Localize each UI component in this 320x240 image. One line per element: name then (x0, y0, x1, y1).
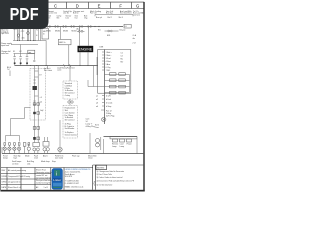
svg-text:b Fuel: b Fuel (106, 99, 112, 101)
svg-text:Plant sup: Plant sup (72, 155, 80, 158)
left rail B (37, 66, 39, 143)
svg-text:Com: Com (95, 127, 99, 129)
svg-text:AVR 2x: AVR 2x (59, 41, 65, 44)
svg-text:Power: Power (127, 144, 132, 146)
svg-text:NOTES:: NOTES: (97, 168, 105, 170)
stair wire S-a (6, 108, 31, 142)
svg-text:C: C (54, 3, 57, 8)
dashed enclosure DB1 (30, 69, 46, 121)
svg-text:MCB3: MCB3 (63, 30, 68, 32)
lamp group L3 (13, 143, 16, 154)
node labels row under strip (48, 10, 144, 17)
svg-text:b 12V: b 12V (106, 95, 111, 97)
title paragraph cell (36, 169, 52, 185)
neutral drop wires (33, 27, 35, 41)
wire collector (13, 40, 46, 42)
svg-text:1 Batt +: 1 Batt + (106, 51, 112, 54)
svg-text:Sect feed here: Sect feed here (120, 12, 132, 15)
svg-text:C2: C2 (121, 56, 123, 58)
terminal strip TS1 (18, 27, 20, 41)
svg-text:3ph 415V: 3ph 415V (1, 33, 9, 35)
lamp X0 (33, 54, 35, 63)
svg-text:Mode: Mode (25, 156, 30, 158)
svg-text:w2: w2 (40, 102, 42, 104)
svg-text:5) On Site Diameter: 5) On Site Diameter (97, 183, 113, 186)
svg-text:a2: a2 (96, 99, 98, 101)
label right of box (133, 34, 137, 45)
svg-text:Line: Line (66, 17, 69, 19)
lamp X1 (58, 120, 62, 154)
svg-text:Mode keys: Mode keys (41, 161, 50, 163)
svg-text:Print per sheet only: Print per sheet only (36, 179, 52, 182)
svg-text:4-Pin Plug: 4-Pin Plug (106, 116, 114, 118)
ladder right rail (129, 75, 131, 93)
svg-text:2) Use 2.5mm Tails: 2) Use 2.5mm Tails (97, 174, 112, 176)
relay box R2 (120, 139, 125, 148)
svg-text:1) Change-over fitted to Gene: 1) Change-over fitted to Generator (97, 170, 125, 173)
meter box M1 (42, 29, 49, 40)
lamp group L1 (3, 143, 6, 154)
svg-text:Chg: Chg (84, 17, 87, 19)
svg-text:Key sw: Key sw (120, 29, 126, 31)
svg-text:curve: curve (57, 70, 61, 72)
speck labels chain (40, 75, 43, 104)
svg-text:set here: set here (12, 162, 19, 165)
bottom labels row1 (3, 155, 97, 160)
contact pair CP3 (33, 127, 39, 130)
wire k-ladder top (14, 45, 35, 54)
svg-text:i: i (56, 171, 57, 177)
svg-text:control GT set: control GT set (36, 174, 48, 177)
svg-text:MCB2: MCB2 (55, 30, 60, 32)
svg-text:Tr2: Tr2 (7, 69, 10, 71)
svg-text:Fan Ctrl: Fan Ctrl (90, 12, 97, 15)
relay box R3 (127, 139, 133, 146)
svg-text:Set Connect: Set Connect (65, 119, 75, 122)
notes box (93, 165, 134, 186)
svg-text:ok approved rev: ok approved rev (8, 181, 21, 183)
svg-text:Set Const: Set Const (44, 69, 52, 72)
label specks left (13, 29, 38, 40)
controller module U1 (98, 50, 131, 94)
svg-text:A4 control panel wiring: A4 control panel wiring (8, 169, 26, 172)
lamp group L5 (27, 143, 30, 154)
svg-text:G: G (136, 3, 139, 8)
svg-text:Out: Out (75, 16, 78, 19)
wire avr drop (61, 27, 69, 66)
dashed option box OB1 (63, 81, 77, 99)
svg-text:a4: a4 (96, 106, 98, 108)
breaker CB4 (71, 26, 75, 28)
svg-text:1 of 1: 1 of 1 (44, 187, 49, 189)
lamp group L4 (17, 143, 20, 154)
svg-text:C1: C1 (121, 53, 123, 55)
selector SS1 (33, 143, 40, 154)
svg-text:Genset Connect: Genset Connect (65, 133, 78, 136)
svg-text:MCB4: MCB4 (72, 30, 77, 32)
selector SS2 (43, 137, 50, 154)
isolator block S1 (33, 86, 37, 90)
timer box TB1 (28, 50, 35, 54)
connector P1 (68, 101, 73, 103)
relay labels (13, 51, 22, 53)
svg-text:keys: keys (14, 158, 18, 160)
svg-text:CHKD: CHKD (2, 181, 8, 183)
wire drop right (104, 139, 138, 154)
svg-text:Ref 2: Ref 2 (108, 17, 112, 19)
svg-text:Lamp: Lamp (120, 146, 125, 148)
contact pair CP1 (33, 103, 39, 105)
svg-text:4) Interconnects: Field and C: 4) Interconnects: Field and Cable Entry … (97, 180, 135, 183)
main lower bus (15, 65, 98, 67)
wire border stub (1, 147, 3, 154)
svg-text:3) Colour Codes to latest con: 3) Colour Codes to latest control (97, 176, 123, 179)
lamp group L2 (8, 143, 11, 154)
svg-text:PDF: PDF (10, 4, 39, 24)
terminal rail (104, 50, 106, 125)
svg-text:Lister: Lister (53, 178, 61, 182)
terminal texts below U1 (96, 95, 112, 108)
svg-text:DATE: DATE (2, 186, 7, 189)
svg-text:4 Start: 4 Start (106, 60, 112, 63)
wire top feeder (95, 14, 133, 16)
svg-text:Alarm: Alarm (43, 155, 48, 158)
svg-text:c3: c3 (40, 97, 42, 99)
svg-text:Composed 4 Pa-A CS entry: Composed 4 Pa-A CS entry (8, 175, 30, 178)
stair wire S-b (11, 136, 20, 142)
svg-text:415: 415 (22, 38, 25, 40)
bottom common bus (2, 153, 143, 155)
rail cross stubs (35, 71, 39, 96)
wire riser (45, 41, 47, 66)
CT T1 (17, 34, 20, 37)
bottom labels row2 (12, 160, 56, 165)
svg-text:D: D (76, 3, 79, 8)
svg-text:Sheet Size 4 x 8: Sheet Size 4 x 8 (8, 186, 21, 189)
wire engine feeds (80, 27, 89, 66)
meter pair G1 (96, 137, 101, 150)
svg-text:4-Way Plug: 4-Way Plug (86, 126, 95, 128)
ladder rung 3 (105, 85, 130, 88)
svg-text:a3: a3 (96, 102, 98, 104)
contact pair CP4 (33, 137, 39, 140)
svg-text:b Stop: b Stop (106, 105, 111, 108)
wire into U1 (88, 57, 105, 87)
svg-text:1/2 section laid list: 1/2 section laid list (36, 176, 51, 179)
company address block (65, 169, 91, 189)
terminal texts U1 (106, 51, 124, 72)
ladder rung 2 (105, 79, 130, 82)
svg-text:Conforms Dwg Std: Conforms Dwg Std (36, 182, 51, 185)
engine interface module E1 (78, 46, 94, 52)
svg-text:Sht 3: Sht 3 (119, 16, 123, 19)
main distribution bus (13, 26, 123, 28)
svg-text:DRWN: DRWN (2, 176, 8, 178)
label power supply (1, 43, 12, 55)
wire plug drop (89, 133, 91, 154)
svg-text:3 Fuel: 3 Fuel (106, 58, 112, 60)
horn H1 (102, 117, 106, 121)
labels below bus (46, 30, 77, 32)
svg-text:EMAIL: info@lcsl.co.uk: EMAIL: info@lcsl.co.uk (65, 186, 84, 189)
ladder rung 4 (105, 91, 130, 94)
svg-text:Out here: Out here (133, 13, 140, 16)
junction dots (94, 26, 99, 27)
svg-text:reset: reset (34, 157, 38, 160)
svg-text:2 Batt -: 2 Batt - (106, 54, 112, 57)
aux text stack (86, 117, 95, 128)
svg-text:tmr: tmr (29, 51, 32, 54)
load arrow box (124, 24, 131, 28)
svg-text:Link: Link (27, 163, 30, 165)
svg-text:Sq2: Sq2 (40, 110, 43, 112)
tick marks rail (33, 80, 35, 105)
junction dots lower bus (30, 65, 88, 66)
note text block top-left (1, 30, 9, 36)
svg-text:4 relay: 4 relay (65, 95, 70, 97)
svg-text:Line Sv: Line Sv (63, 13, 69, 15)
labels above main bus (48, 15, 88, 20)
svg-text:ENGINE: ENGINE (79, 48, 93, 52)
svg-text:Fuse Dist: Fuse Dist (67, 67, 75, 70)
breaker CB2 (55, 26, 59, 28)
svg-text:volts free: volts free (1, 52, 8, 55)
svg-text:2nd Breaker: 2nd Breaker (65, 128, 75, 130)
svg-text:SO4 8TF: SO4 8TF (65, 176, 73, 178)
svg-text:Aux: Aux (77, 27, 80, 30)
text stack right-bottom (95, 111, 114, 130)
svg-text:CT2: CT2 (21, 31, 24, 33)
zone strip (1, 2, 144, 8)
ladder rung 1 (105, 73, 130, 76)
breaker CB6 (88, 26, 92, 28)
AVR box (58, 39, 71, 44)
left rail A (34, 66, 36, 143)
breaker CB1 (47, 26, 51, 28)
svg-text:Stop: Stop (52, 160, 56, 163)
labels under lower bus (44, 67, 75, 72)
svg-text:Carrier Out: Carrier Out (48, 12, 57, 15)
output strip (110, 137, 137, 139)
3-phase drop wires (27, 27, 30, 41)
contact CR1 (77, 27, 85, 32)
CT T2 (27, 32, 30, 35)
output strip wire (104, 136, 138, 138)
svg-text:lamps: lamps (3, 158, 8, 160)
svg-text:2 of: 2 of (133, 43, 136, 45)
contact K2 (19, 54, 22, 66)
border frame (0, 2, 144, 192)
page background (0, 0, 149, 198)
feeder sub labels (96, 16, 123, 19)
breaker CB3 (63, 26, 67, 28)
fuse F1 (64, 64, 71, 67)
junction dots collector (17, 40, 47, 66)
breaker CB5 (79, 26, 83, 28)
svg-text:A3: A3 (36, 186, 38, 189)
PDF badge (0, 0, 49, 29)
left feeder label (7, 67, 11, 76)
svg-text:input here: input here (1, 44, 9, 47)
dashed option box OB2 (63, 106, 78, 139)
contact pair CP2 (33, 110, 43, 114)
junction stub (46, 66, 48, 69)
svg-text:b Crank: b Crank (106, 102, 112, 104)
terminal ticks below U1 (101, 96, 105, 111)
svg-text:F: F (119, 3, 122, 8)
svg-text:Lamp: Lamp (112, 146, 117, 148)
contact K1 (13, 54, 16, 66)
feeder tick marks (95, 15, 133, 17)
wire drop extra (14, 27, 40, 41)
svg-text:K1: K1 (13, 51, 15, 53)
title block grid (1, 165, 144, 190)
svg-text:Bus tie: Bus tie (73, 12, 79, 15)
svg-text:Cont: Cont (86, 117, 90, 120)
svg-text:Bus cpl: Bus cpl (96, 17, 102, 19)
title row labels (2, 169, 49, 189)
switch SW1 (98, 29, 126, 36)
svg-text:K2: K2 (19, 51, 21, 53)
wire ladder bottom rail (33, 53, 35, 55)
svg-text:ES1: ES1 (107, 35, 110, 37)
svg-text:5 Aux: 5 Aux (106, 63, 111, 66)
contact K3 (26, 54, 29, 66)
svg-text:Generator wiring for: Generator wiring for (36, 171, 52, 174)
svg-text:Sheet: Final: Sheet: Final (36, 169, 46, 172)
svg-text:7 W/L: 7 W/L (106, 70, 111, 72)
company logo (52, 168, 63, 189)
svg-text:Close: Close (88, 158, 93, 160)
svg-text:E: E (98, 3, 101, 8)
svg-text:a1: a1 (96, 95, 98, 97)
terminal ticks U1 (102, 52, 105, 70)
wire supply (11, 44, 38, 46)
svg-text:TR1: TR1 (13, 29, 16, 31)
svg-text:F: 01489 123 457: F: 01489 123 457 (65, 183, 79, 185)
push button PB1 (23, 143, 26, 154)
relay box R1 (112, 139, 118, 148)
wire box riser (69, 66, 71, 106)
svg-text:(see note): (see note) (55, 157, 63, 160)
svg-text:6 Chg: 6 Chg (106, 67, 111, 69)
